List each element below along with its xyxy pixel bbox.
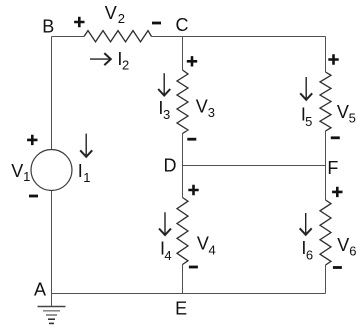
svg-text:2: 2	[118, 11, 125, 26]
plus sign of V5	[328, 54, 338, 64]
label V1	[11, 161, 30, 184]
svg-text:3: 3	[208, 105, 215, 120]
wire V3 bottom to D and D to V4 top	[182, 134, 184, 198]
svg-text:5: 5	[349, 111, 356, 126]
current arrow I5	[300, 77, 312, 100]
svg-text:I: I	[78, 161, 83, 181]
minus sign of V2	[152, 22, 161, 25]
label V4	[197, 234, 216, 258]
node F label	[327, 158, 338, 178]
svg-text:V: V	[337, 235, 349, 255]
minus sign of V5	[331, 136, 340, 139]
wire V4 bottom to E	[182, 265, 184, 294]
svg-text:V: V	[196, 96, 208, 116]
minus sign of V1	[29, 195, 38, 198]
svg-text:3: 3	[163, 107, 170, 122]
svg-text:4: 4	[164, 248, 171, 263]
label I2	[117, 49, 129, 73]
label V6	[337, 235, 356, 259]
svg-text:1: 1	[83, 170, 90, 185]
wire V2 to C and C to top-right corner	[152, 36, 326, 38]
plus sign of V2	[74, 17, 84, 27]
label I3	[158, 98, 170, 122]
label I6	[301, 238, 313, 262]
current arrow I4	[159, 212, 171, 235]
wire B to V2 (top-left horizontal)	[52, 36, 85, 38]
label I5	[301, 105, 312, 129]
svg-text:4: 4	[209, 243, 216, 258]
label V3	[196, 96, 215, 120]
current arrow I2	[90, 53, 111, 65]
plus sign of V6	[332, 187, 342, 197]
minus sign of V6	[333, 266, 342, 269]
node D label	[164, 156, 177, 176]
svg-text:V: V	[105, 3, 117, 23]
plus sign of V1	[27, 135, 37, 145]
minus sign of V4	[189, 266, 198, 269]
resistor V6 (vertical, F to bottom-right)	[320, 200, 331, 265]
current arrow I3	[158, 73, 170, 95]
svg-text:C: C	[176, 15, 189, 35]
resistor V4 (vertical, D to E)	[177, 198, 188, 265]
svg-text:6: 6	[349, 244, 356, 259]
svg-text:V: V	[197, 234, 209, 254]
node E label	[175, 298, 187, 318]
wire V5 bottom to F and F to V6 top	[325, 131, 327, 200]
svg-text:1: 1	[23, 169, 30, 184]
minus sign of V3	[187, 138, 196, 141]
label V5	[337, 102, 356, 126]
svg-text:E: E	[175, 298, 187, 318]
svg-text:F: F	[327, 158, 338, 178]
wire A to E to bottom-right corner (bottom horizontal)	[52, 293, 326, 295]
wire V6 bottom to bottom-right corner	[325, 265, 327, 294]
wire top-right corner down to V5 top	[325, 37, 327, 73]
current arrow I1	[80, 134, 92, 157]
current arrow I6	[300, 213, 312, 235]
resistor V2 (horizontal, between B and C)	[84, 31, 152, 42]
label V2	[105, 3, 125, 26]
svg-text:V: V	[11, 161, 23, 181]
svg-text:D: D	[164, 156, 177, 176]
wire V1 bottom down to A	[51, 191, 53, 294]
wire D to F (middle horizontal)	[183, 165, 326, 167]
resistor V5 (vertical, top-right to F)	[320, 72, 331, 131]
voltage source V1 (circle)	[31, 150, 72, 191]
resistor V3 (vertical, C to D)	[177, 70, 188, 134]
plus sign of V4	[188, 185, 198, 195]
svg-text:V: V	[337, 102, 349, 122]
svg-text:B: B	[42, 17, 54, 37]
plus sign of V3	[187, 56, 197, 66]
node A label	[34, 280, 46, 300]
wire C down to V3 top	[182, 37, 184, 71]
svg-text:6: 6	[306, 247, 313, 262]
wire B down to V1 top	[51, 37, 53, 150]
node C label	[176, 15, 189, 35]
label I1	[78, 161, 91, 185]
node B label	[42, 17, 54, 37]
svg-text:5: 5	[305, 114, 312, 129]
ground at node A	[38, 294, 66, 324]
svg-text:A: A	[34, 280, 46, 300]
label I4	[160, 239, 172, 263]
svg-text:2: 2	[122, 58, 129, 73]
